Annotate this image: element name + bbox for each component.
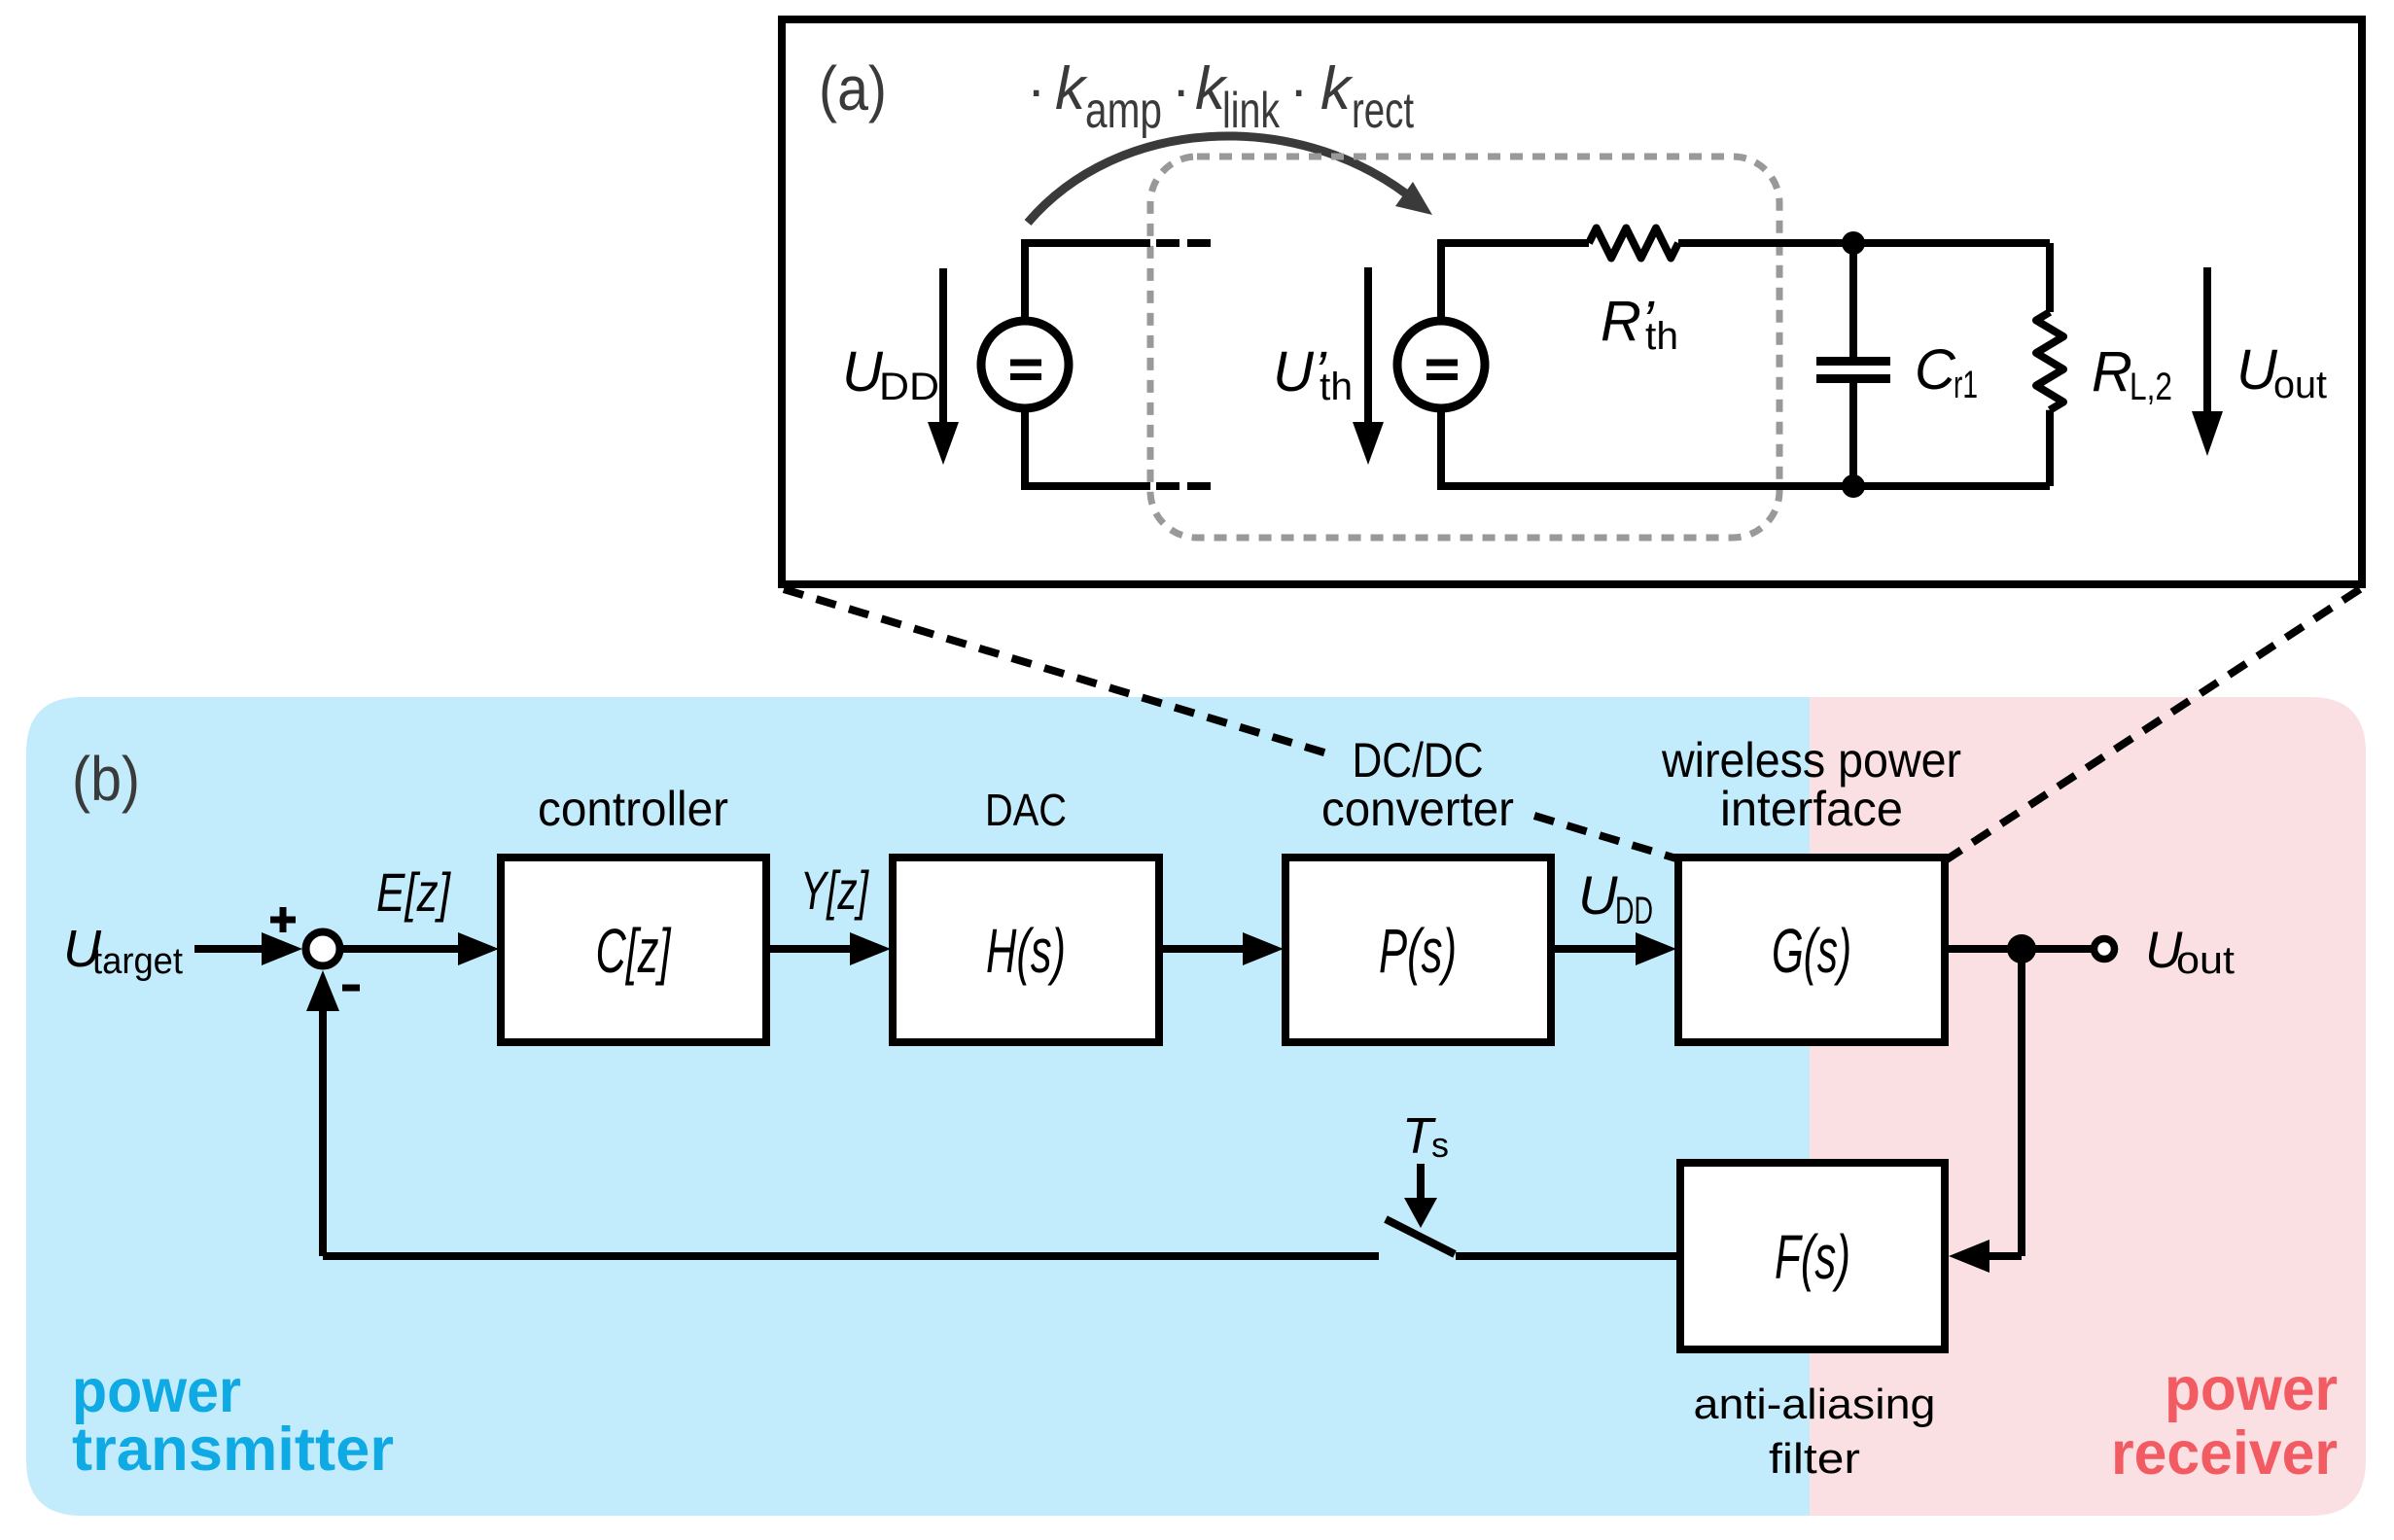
svg-text:rect: rect — [1352, 83, 1414, 139]
svg-text:wireless power: wireless power — [1661, 733, 1961, 787]
wire: R'_th to output node — [1678, 239, 2050, 247]
svg-text:DD: DD — [879, 366, 939, 408]
wire: U'_th source bottom lead — [1441, 408, 2050, 486]
zoom link dashed line right (to G(s) top-right) — [1947, 589, 2360, 859]
svg-text:interface: interface — [1720, 782, 1903, 836]
block anti-aliasing filter F(s) — [1680, 1163, 1945, 1349]
block wireless power interface G(s) — [1678, 857, 1945, 1042]
svg-text:C[z]: C[z] — [596, 916, 672, 986]
output terminal — [2095, 939, 2115, 960]
wire: F(s) to sampling switch — [1456, 1252, 1680, 1260]
wire: feedback up to summing junction — [319, 1011, 327, 1256]
wire: input to summing junction — [194, 945, 264, 953]
svg-text:·: · — [1172, 58, 1190, 122]
arrow U'_th (voltage direction) — [1364, 267, 1372, 424]
block DC/DC converter P(s) — [1285, 857, 1551, 1042]
svg-text:U: U — [842, 340, 884, 403]
arrow U_DD (voltage direction) — [939, 268, 947, 424]
zoom link dashed line left (to G(s) top-left) — [784, 589, 1676, 858]
wire: converter to wireless power interface — [1551, 945, 1637, 953]
wire: top link dashes — [1156, 239, 1211, 247]
svg-text:receiver: receiver — [2111, 1419, 2338, 1487]
wire: U_DD source top lead — [1025, 243, 1150, 321]
wire: interface to output terminal — [1945, 945, 2094, 953]
wire: bottom link dashes — [1156, 482, 1211, 490]
svg-text:DC/DC: DC/DC — [1353, 733, 1484, 787]
node junction bottom — [1842, 474, 1865, 498]
svg-text:anti-aliasing: anti-aliasing — [1694, 1381, 1936, 1428]
wire: switch to feedback run — [323, 1252, 1379, 1260]
svg-text:r1: r1 — [1954, 364, 1978, 406]
power receiver region — [1810, 697, 2366, 1516]
svg-text:DAC: DAC — [985, 785, 1067, 835]
svg-text:L,2: L,2 — [2130, 366, 2172, 408]
wire: feedback from output node down — [2018, 949, 2025, 1256]
svg-text:P(s): P(s) — [1379, 916, 1457, 986]
svg-text:filter: filter — [1769, 1435, 1860, 1483]
gain arrow (curved) — [1028, 136, 1407, 223]
svg-text:s: s — [1431, 1125, 1449, 1165]
svg-text:U: U — [1578, 864, 1618, 926]
wire: junction to controller — [343, 945, 460, 953]
power transmitter region — [26, 697, 1810, 1516]
dc source U'_th — [1397, 321, 1485, 408]
svg-text:·: · — [1289, 58, 1308, 122]
svg-text:th: th — [1645, 315, 1678, 358]
svg-text:R: R — [2092, 340, 2132, 403]
svg-text:k: k — [1055, 55, 1088, 122]
svg-text:H(s): H(s) — [986, 916, 1066, 986]
resistor R'_th — [1589, 228, 1678, 259]
svg-text:G(s): G(s) — [1772, 916, 1851, 986]
svg-text:·: · — [1027, 58, 1045, 122]
sampling switch blade — [1386, 1219, 1455, 1254]
plus sign — [270, 907, 296, 932]
svg-text:converter: converter — [1321, 782, 1514, 836]
svg-text:(a): (a) — [819, 53, 887, 123]
wire: U'_th source top lead — [1441, 243, 1589, 321]
svg-text:k: k — [1320, 55, 1354, 122]
equivalent two-port boundary (gray dashed) — [1150, 157, 1779, 538]
output node junction — [2007, 934, 2036, 963]
arrow U_out (a) — [2203, 267, 2211, 413]
svg-text:power: power — [2165, 1355, 2338, 1423]
dc source U_DD — [981, 321, 1069, 408]
node junction top — [1842, 231, 1865, 255]
svg-text:F(s): F(s) — [1775, 1222, 1850, 1292]
block controller C[z] — [501, 857, 766, 1042]
svg-text:target: target — [92, 941, 183, 982]
minus sign — [342, 985, 360, 992]
capacitor C_r1 — [1849, 243, 1857, 357]
svg-text:amp: amp — [1085, 83, 1162, 139]
svg-text:E[z]: E[z] — [376, 861, 451, 923]
svg-text:controller: controller — [538, 782, 728, 836]
svg-text:out: out — [2273, 364, 2327, 406]
arrow T_s (sampling) — [1417, 1164, 1425, 1200]
svg-text:U: U — [2236, 338, 2278, 402]
svg-text:Y[z]: Y[z] — [800, 859, 869, 921]
svg-text:link: link — [1222, 83, 1281, 139]
block DAC H(s) — [893, 857, 1159, 1042]
svg-text:(b): (b) — [72, 744, 140, 814]
resistor R_L,2 — [2046, 243, 2054, 312]
svg-text:DD: DD — [1615, 890, 1653, 932]
svg-text:th: th — [1320, 366, 1353, 408]
wire: feedback into F(s) — [1988, 1252, 2022, 1260]
svg-text:out: out — [2176, 939, 2235, 982]
summing junction — [306, 932, 340, 966]
svg-text:transmitter: transmitter — [72, 1416, 394, 1484]
inset frame (a) — [782, 19, 2362, 584]
wire: U_DD source bottom lead — [1025, 408, 1150, 486]
svg-text:C: C — [1915, 338, 1956, 402]
wire: DAC to DC/DC converter — [1159, 945, 1245, 953]
wire: controller to DAC — [766, 945, 852, 953]
gain annotation k_amp k_link k_rect — [1027, 55, 1414, 139]
